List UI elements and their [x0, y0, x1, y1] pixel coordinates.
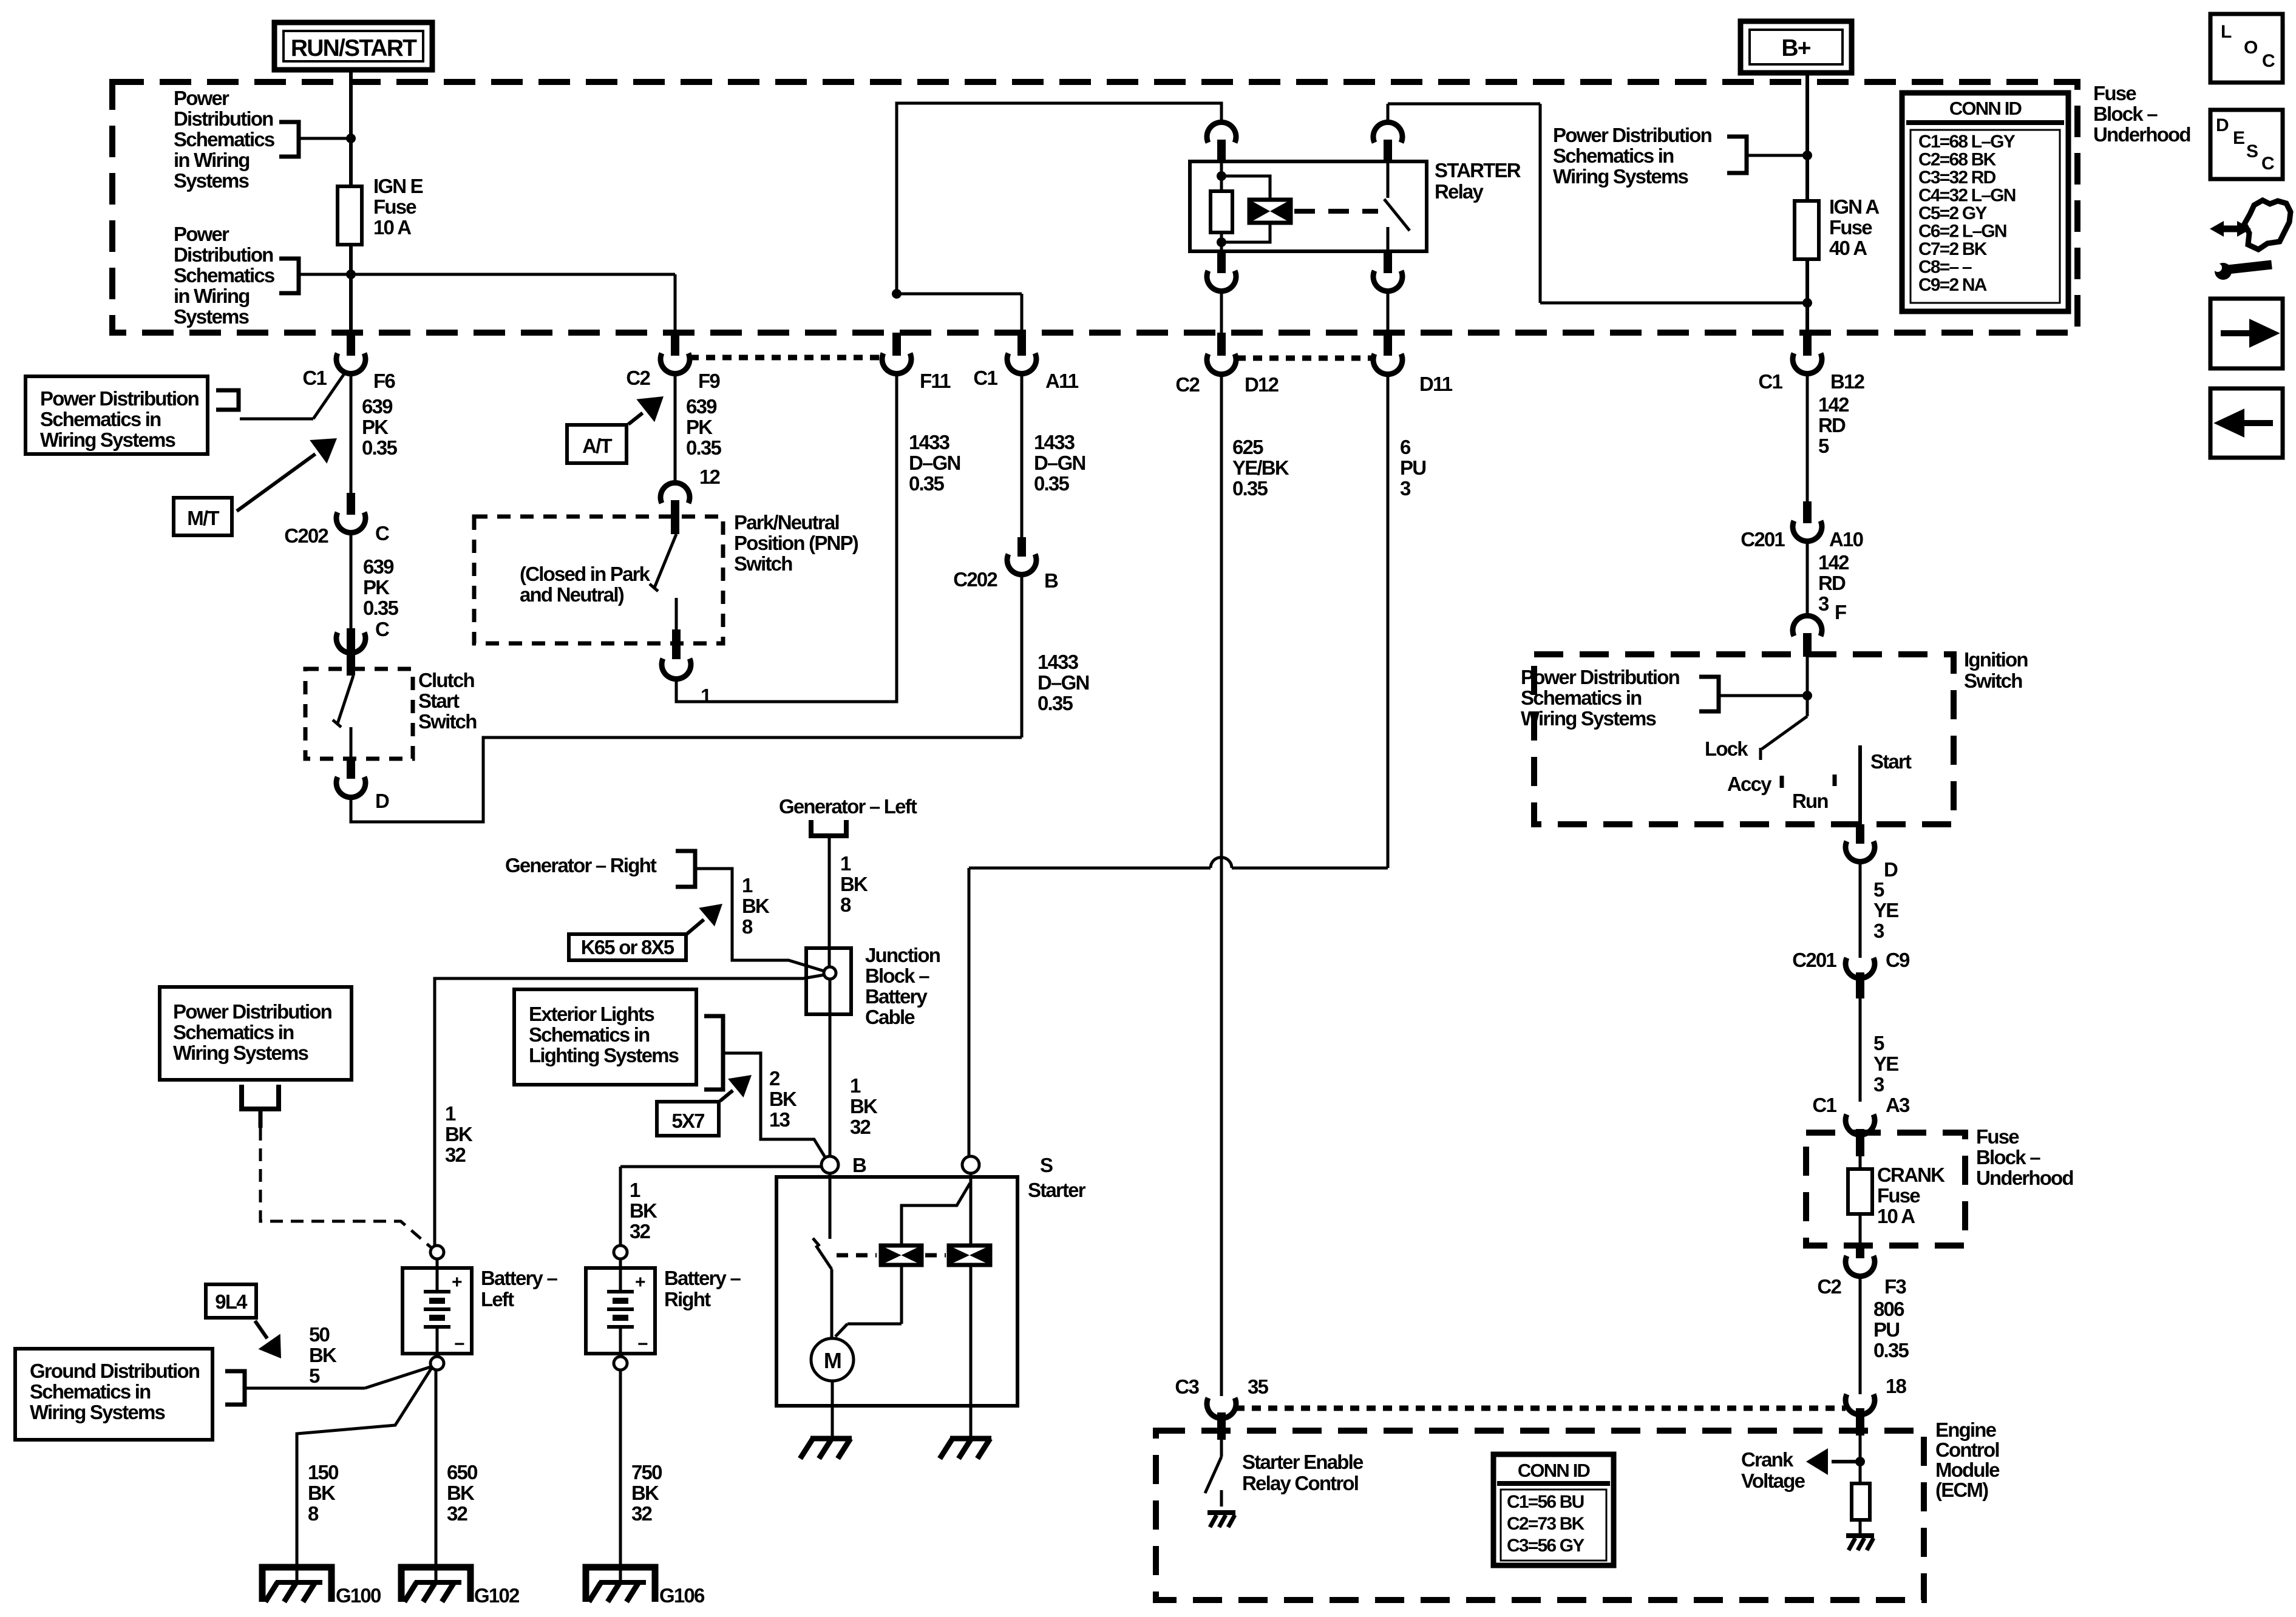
ignition position tick Accy	[1780, 776, 1784, 788]
wire C202 to clutch switch	[350, 531, 353, 628]
svg-text:S: S	[2246, 141, 2258, 161]
svg-text:BK: BK	[631, 1482, 659, 1504]
PNP switch blade	[654, 534, 676, 588]
connector ignition pin F	[1793, 615, 1822, 636]
svg-text:32: 32	[630, 1220, 651, 1242]
reference bracket r1 (power distribution)	[1727, 137, 1747, 173]
svg-text:C1: C1	[1758, 370, 1782, 393]
svg-text:806: 806	[1873, 1298, 1904, 1320]
svg-text:YE: YE	[1873, 1053, 1898, 1075]
svg-text:C2: C2	[626, 367, 650, 389]
svg-text:142: 142	[1818, 393, 1849, 416]
svg-text:C3=56 GY: C3=56 GY	[1507, 1536, 1584, 1556]
relay right pin connector	[1373, 122, 1402, 143]
svg-text:Relay: Relay	[1435, 180, 1484, 203]
svg-text:5: 5	[1873, 1032, 1884, 1054]
svg-text:C1=68 L–GY: C1=68 L–GY	[1918, 132, 2016, 152]
svg-text:F6: F6	[373, 370, 395, 392]
svg-text:Systems: Systems	[174, 305, 249, 328]
power distribution bracket 4	[242, 1085, 279, 1109]
svg-text:S: S	[1040, 1154, 1053, 1176]
svg-text:Schematics in: Schematics in	[529, 1023, 650, 1046]
svg-text:639: 639	[362, 395, 393, 418]
svg-text:in Wiring: in Wiring	[174, 285, 250, 307]
svg-text:1: 1	[701, 685, 712, 707]
ground starter motor	[810, 1436, 852, 1442]
svg-text:A11: A11	[1045, 370, 1079, 392]
wire D to A11 riser	[351, 737, 1022, 822]
svg-text:B12: B12	[1830, 370, 1865, 393]
connector C202 pin B	[1017, 537, 1026, 557]
svg-text:40 A: 40 A	[1829, 237, 1867, 259]
svg-text:35: 35	[1248, 1375, 1269, 1398]
svg-text:F9: F9	[698, 370, 720, 392]
label box exterior lights	[514, 989, 696, 1085]
svg-text:in Wiring: in Wiring	[174, 149, 250, 171]
svg-text:Power: Power	[174, 87, 229, 109]
svg-text:Relay Control: Relay Control	[1242, 1472, 1358, 1494]
svg-text:18: 18	[1886, 1375, 1907, 1397]
relay coil left pin connector	[1207, 122, 1236, 143]
svg-text:C2: C2	[1175, 373, 1200, 396]
connector C201 pin A10	[1803, 501, 1812, 523]
svg-text:32: 32	[631, 1502, 653, 1525]
svg-text:G100: G100	[336, 1584, 381, 1607]
node ignition feed junction	[1802, 691, 1812, 700]
PNP lower contact	[675, 598, 678, 629]
park/neutral position switch dashed box	[474, 517, 723, 643]
svg-text:1433: 1433	[909, 431, 950, 453]
icon DESC box	[2210, 110, 2283, 179]
wire crossover hop	[1211, 858, 1232, 869]
junction block eyelet	[824, 967, 836, 979]
ignition switch lock blade	[1806, 696, 1809, 716]
svg-text:Switch: Switch	[418, 710, 477, 733]
svg-text:BK: BK	[447, 1482, 475, 1504]
svg-text:C202: C202	[284, 524, 328, 547]
svg-text:Accy: Accy	[1727, 773, 1772, 795]
svg-text:Module: Module	[1935, 1459, 2000, 1481]
wire resistor to ground	[1859, 1520, 1862, 1534]
svg-text:Ignition: Ignition	[1964, 648, 2028, 671]
svg-text:3: 3	[1873, 920, 1884, 942]
svg-text:32: 32	[850, 1116, 871, 1138]
arrow A/T	[628, 413, 643, 424]
svg-text:BK: BK	[742, 895, 770, 917]
svg-text:Cable: Cable	[865, 1006, 915, 1028]
svg-text:C5=2 GY: C5=2 GY	[1918, 203, 1987, 223]
svg-text:C2=68 BK: C2=68 BK	[1918, 150, 1997, 170]
svg-text:C1: C1	[302, 367, 327, 389]
label box 5X7	[657, 1102, 719, 1136]
svg-text:Power Distribution: Power Distribution	[173, 1000, 332, 1023]
svg-text:C: C	[2262, 51, 2275, 71]
reference bracket r2 (power distribution)	[1699, 677, 1719, 711]
battery right	[614, 1246, 627, 1259]
label box power distribution schematics 4	[160, 987, 352, 1080]
svg-text:Schematics: Schematics	[174, 128, 274, 151]
svg-text:IGN A: IGN A	[1829, 195, 1879, 218]
ground ECM crank	[1846, 1533, 1874, 1538]
svg-text:C3: C3	[1175, 1375, 1199, 1398]
connector C1 pin A11	[1017, 333, 1026, 356]
svg-text:D: D	[1884, 858, 1898, 881]
label box power distribution schematics 3	[25, 376, 208, 454]
wire start to D	[1856, 824, 1864, 844]
relay coil branch	[1221, 176, 1270, 200]
connector C3 pin 35	[1207, 1398, 1236, 1419]
wire F6 to C202	[350, 371, 353, 493]
svg-text:Block –: Block –	[2093, 103, 2158, 125]
power source label RUN/START	[274, 22, 432, 70]
wire 150 BK 8	[297, 1367, 432, 1582]
reference bracket 2 (power distribution)	[279, 259, 299, 293]
starter coil1	[881, 1246, 922, 1265]
ground G100	[262, 1567, 331, 1602]
svg-text:C201: C201	[1741, 528, 1785, 551]
svg-text:C: C	[375, 618, 389, 640]
connector PNP pin 12	[661, 483, 690, 503]
connector C2 pin F9	[671, 333, 679, 356]
svg-text:8: 8	[742, 915, 753, 938]
svg-text:5X7: 5X7	[671, 1110, 704, 1132]
svg-text:1: 1	[850, 1074, 861, 1097]
svg-text:0.35: 0.35	[909, 472, 944, 495]
svg-text:C1: C1	[1812, 1094, 1836, 1116]
svg-text:Starter: Starter	[1028, 1179, 1086, 1201]
svg-text:2: 2	[769, 1067, 780, 1090]
starter coil1 upper wire	[902, 1183, 970, 1246]
svg-text:YE/BK: YE/BK	[1232, 456, 1289, 479]
svg-text:C1: C1	[973, 367, 997, 389]
svg-text:PK: PK	[362, 416, 389, 438]
svg-text:Distribution: Distribution	[174, 243, 273, 266]
connector C201 pin C9	[1846, 958, 1875, 978]
ECM connector row dotted line	[1235, 1406, 1846, 1411]
svg-text:650: 650	[447, 1461, 477, 1483]
svg-text:Generator – Right: Generator – Right	[505, 854, 657, 876]
relay mechanical link dashed	[1294, 209, 1378, 214]
wire A11 to C202 B	[1021, 371, 1024, 537]
connector row dotted line F9-F11	[690, 355, 881, 361]
svg-text:13: 13	[769, 1108, 790, 1131]
svg-text:0.35: 0.35	[686, 436, 721, 459]
svg-text:Schematics in: Schematics in	[1521, 686, 1642, 709]
starter solenoid to motor	[830, 1269, 834, 1338]
wire B+ trunk	[1805, 73, 1809, 333]
svg-text:Schematics in: Schematics in	[40, 408, 161, 430]
svg-text:F3: F3	[1884, 1275, 1906, 1298]
fuse block - underhood dashed box	[112, 82, 2077, 333]
connector pin D (ignition)	[1846, 841, 1875, 862]
svg-text:639: 639	[363, 555, 394, 578]
wire F11-A11 link	[897, 293, 1022, 296]
wire exterior lights to B	[723, 1053, 826, 1158]
node F11/A11 tie	[892, 289, 902, 299]
svg-text:Position (PNP): Position (PNP)	[734, 532, 858, 554]
wire A10 to F	[1806, 539, 1809, 615]
wire B down to riser	[1021, 572, 1024, 737]
svg-text:D12: D12	[1245, 373, 1279, 396]
connector PNP pin 1	[662, 659, 691, 679]
svg-text:3: 3	[1873, 1073, 1884, 1096]
relay switch	[1387, 161, 1390, 198]
svg-text:BK: BK	[630, 1199, 657, 1222]
svg-text:5: 5	[309, 1364, 320, 1387]
wire relay right pin feed	[1387, 104, 1390, 125]
wire S riser	[968, 868, 971, 1156]
svg-text:A/T: A/T	[582, 435, 612, 457]
generator left terminal bracket	[811, 820, 846, 836]
wire F3 to ECM 18	[1859, 1274, 1862, 1394]
connector C lower	[347, 628, 355, 651]
icon back arrow box	[2210, 388, 2283, 458]
svg-text:A3: A3	[1886, 1094, 1910, 1116]
svg-text:3: 3	[1400, 477, 1411, 500]
svg-text:−: −	[454, 1334, 464, 1354]
svg-text:CONN ID: CONN ID	[1949, 98, 2022, 119]
wire relay right pin to D11	[1387, 290, 1390, 333]
svg-text:G102: G102	[474, 1584, 520, 1607]
fuse IGN E 10A	[338, 186, 362, 245]
connector C1 pin F6	[347, 333, 355, 356]
svg-text:Switch: Switch	[1964, 670, 2022, 692]
svg-text:6: 6	[1400, 436, 1411, 458]
svg-text:Lock: Lock	[1705, 737, 1748, 760]
svg-text:Fuse: Fuse	[2093, 82, 2136, 104]
svg-text:STARTER: STARTER	[1435, 159, 1521, 181]
svg-text:Schematics: Schematics	[174, 264, 274, 286]
starter coil2	[949, 1246, 990, 1265]
svg-text:RD: RD	[1818, 414, 1846, 436]
svg-text:150: 150	[308, 1461, 338, 1483]
svg-text:Start: Start	[1870, 750, 1912, 773]
svg-text:10 A: 10 A	[373, 216, 411, 239]
wire F9 to PNP 12	[674, 371, 677, 486]
starter S wire	[970, 1173, 973, 1246]
svg-text:Power Distribution: Power Distribution	[40, 387, 199, 410]
svg-text:0.35: 0.35	[1034, 472, 1069, 495]
battery left	[430, 1246, 444, 1259]
svg-text:750: 750	[631, 1461, 662, 1483]
svg-text:639: 639	[686, 395, 717, 418]
svg-text:1: 1	[742, 874, 753, 897]
resistor relay	[1211, 191, 1232, 232]
svg-text:32: 32	[447, 1502, 468, 1525]
svg-text:Schematics in: Schematics in	[173, 1021, 294, 1043]
svg-text:BK: BK	[850, 1095, 878, 1117]
crank voltage arrow	[1832, 1460, 1860, 1463]
relay right pin lower connector	[1384, 251, 1392, 273]
svg-text:Power Distribution: Power Distribution	[1553, 124, 1712, 146]
wire battery left to junction block	[435, 975, 824, 1246]
connector C1 pin B12	[1803, 333, 1812, 356]
connector ECM pin 18	[1846, 1394, 1875, 1415]
label box M/T	[174, 498, 232, 535]
connector C2 pin D12	[1217, 333, 1226, 356]
svg-text:G106: G106	[659, 1584, 705, 1607]
ignition switch dashed box	[1534, 654, 1954, 824]
svg-text:Start: Start	[418, 690, 460, 712]
node crank voltage junction	[1859, 1436, 1862, 1483]
node IGN A output junction	[1802, 298, 1812, 308]
svg-text:BK: BK	[308, 1482, 336, 1504]
relay internal left wire	[1220, 161, 1223, 251]
svg-text:+: +	[635, 1272, 645, 1292]
svg-text:and Neutral): and Neutral)	[520, 583, 624, 606]
junction block battery cable box	[806, 948, 851, 1014]
arrow 5X7	[720, 1090, 733, 1101]
clutch start switch dashed box	[305, 669, 413, 759]
svg-text:C2: C2	[1817, 1275, 1841, 1298]
icon vehicle double arrow	[2217, 226, 2244, 232]
wire RUN/START trunk	[349, 70, 353, 333]
svg-text:Fuse: Fuse	[373, 195, 416, 218]
svg-text:5: 5	[1818, 435, 1829, 457]
svg-text:CONN ID: CONN ID	[1518, 1460, 1591, 1481]
svg-text:(ECM): (ECM)	[1935, 1479, 1988, 1501]
wire D to C201 C9	[1859, 859, 1862, 958]
svg-text:PK: PK	[363, 576, 390, 598]
svg-text:Underhood: Underhood	[2093, 123, 2190, 146]
starter terminal B	[821, 1156, 838, 1173]
node relay coil bottom	[1217, 237, 1226, 247]
node IGN E output junction	[346, 269, 356, 279]
reference bracket 3 wire to C1/F6	[240, 418, 313, 421]
svg-text:Wiring Systems: Wiring Systems	[173, 1042, 308, 1064]
svg-text:C4=32 L–GN: C4=32 L–GN	[1918, 186, 2016, 206]
svg-text:Voltage: Voltage	[1741, 1470, 1805, 1492]
svg-text:Power Distribution: Power Distribution	[1521, 666, 1680, 688]
svg-text:Power: Power	[174, 223, 229, 245]
svg-text:0.35: 0.35	[1873, 1339, 1909, 1361]
label box ground distribution	[15, 1349, 212, 1440]
wire D11 down	[1387, 371, 1390, 868]
svg-text:Clutch: Clutch	[418, 669, 475, 691]
svg-text:RD: RD	[1818, 572, 1846, 594]
engine control module dashed box	[1156, 1431, 1924, 1600]
svg-text:C7=2 BK: C7=2 BK	[1918, 239, 1988, 259]
wire relay left pin to D12	[1220, 290, 1223, 333]
wire IGN E to F9	[351, 273, 675, 276]
svg-text:0.35: 0.35	[363, 597, 398, 619]
svg-text:1: 1	[630, 1179, 640, 1201]
wire generator right to junction block	[695, 869, 824, 971]
svg-text:PK: PK	[686, 416, 713, 438]
svg-text:0.35: 0.35	[1232, 477, 1268, 500]
svg-text:Wiring Systems: Wiring Systems	[40, 429, 175, 451]
dashed wire to battery left positive	[260, 1128, 432, 1248]
label box 9L4	[206, 1284, 256, 1318]
svg-text:E: E	[2233, 128, 2244, 148]
ground distribution bracket	[225, 1371, 245, 1405]
svg-text:Ground Distribution: Ground Distribution	[30, 1360, 200, 1382]
connector pin D	[336, 777, 365, 798]
svg-text:Park/Neutral: Park/Neutral	[734, 511, 839, 534]
svg-text:A10: A10	[1829, 528, 1863, 551]
relay left pin lower connector	[1217, 251, 1226, 273]
svg-text:1433: 1433	[1038, 651, 1079, 673]
svg-text:625: 625	[1232, 436, 1263, 458]
starter box	[776, 1177, 1017, 1406]
svg-text:C9: C9	[1886, 949, 1910, 971]
svg-text:Fuse: Fuse	[1976, 1125, 2019, 1148]
svg-text:Control: Control	[1935, 1439, 1999, 1461]
svg-text:Engine: Engine	[1935, 1419, 1997, 1441]
svg-text:Battery –: Battery –	[664, 1267, 741, 1289]
generator right bracket	[676, 851, 695, 887]
svg-text:C9=2 NA: C9=2 NA	[1918, 275, 1987, 295]
wire battery right feed	[620, 1165, 821, 1168]
label box K65 or 8X5	[569, 934, 686, 960]
svg-text:Run: Run	[1792, 790, 1828, 812]
svg-text:10 A: 10 A	[1877, 1205, 1915, 1227]
svg-text:YE: YE	[1873, 899, 1898, 921]
svg-text:8: 8	[840, 893, 851, 916]
ground G102	[401, 1567, 470, 1602]
fuse IGN A 40A	[1795, 201, 1819, 259]
svg-text:50: 50	[309, 1323, 330, 1346]
wire F into switch	[1806, 657, 1809, 696]
svg-text:Schematics in: Schematics in	[30, 1380, 151, 1403]
wire PNP 1 to F11	[676, 371, 897, 702]
svg-text:D–GN: D–GN	[909, 452, 960, 474]
svg-text:F: F	[1835, 601, 1846, 623]
svg-text:RUN/START: RUN/START	[291, 35, 417, 61]
svg-text:Underhood: Underhood	[1976, 1167, 2073, 1189]
arrow M/T	[237, 454, 315, 511]
svg-text:C6=2 L–GN: C6=2 L–GN	[1918, 222, 2006, 242]
svg-text:BK: BK	[840, 873, 868, 895]
svg-text:(Closed in Park: (Closed in Park	[520, 563, 651, 585]
svg-text:Exterior Lights: Exterior Lights	[529, 1003, 654, 1025]
svg-text:Right: Right	[664, 1288, 711, 1310]
starter terminal S	[962, 1156, 979, 1173]
svg-text:Wiring Systems: Wiring Systems	[1553, 165, 1688, 188]
ground starter solenoid	[950, 1436, 991, 1442]
icon LOC box	[2210, 14, 2283, 83]
fuse block underhood 2 dashed box	[1806, 1133, 1965, 1246]
svg-text:Wiring Systems: Wiring Systems	[30, 1401, 165, 1423]
wire D12 to C3	[1220, 371, 1223, 1396]
icon forward arrow box	[2210, 299, 2283, 368]
reference bracket 3	[216, 390, 239, 410]
svg-text:0.35: 0.35	[362, 436, 397, 459]
svg-text:−: −	[637, 1334, 648, 1354]
svg-text:32: 32	[445, 1144, 466, 1166]
exterior lights bracket	[704, 1016, 723, 1090]
relay coil element	[1249, 200, 1291, 223]
fuse CRANK 10A	[1859, 1156, 1862, 1169]
ECM starter enable switch	[1220, 1440, 1223, 1457]
svg-text:BK: BK	[309, 1344, 337, 1366]
svg-text:Block –: Block –	[1976, 1146, 2040, 1168]
svg-text:Crank: Crank	[1741, 1448, 1794, 1471]
svg-text:PU: PU	[1400, 456, 1425, 479]
svg-text:Schematics in: Schematics in	[1553, 144, 1674, 167]
svg-text:K65 or 8X5: K65 or 8X5	[581, 936, 674, 958]
svg-text:PU: PU	[1873, 1318, 1899, 1341]
svg-text:C: C	[375, 522, 389, 544]
svg-text:O: O	[2244, 38, 2258, 58]
svg-text:Wiring Systems: Wiring Systems	[1521, 707, 1656, 730]
arrow 9L4	[255, 1321, 267, 1338]
svg-text:Starter Enable: Starter Enable	[1242, 1451, 1364, 1473]
svg-text:L: L	[2221, 22, 2232, 42]
connector C1 pin F11	[892, 333, 901, 356]
svg-text:Systems: Systems	[174, 169, 249, 192]
node B+ bracket junction	[1802, 151, 1812, 160]
